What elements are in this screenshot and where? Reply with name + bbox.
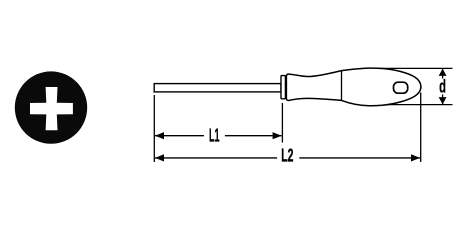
svg-text:L1: L1 [209,125,220,145]
svg-text:d: d [439,77,446,97]
svg-text:L2: L2 [281,145,293,165]
